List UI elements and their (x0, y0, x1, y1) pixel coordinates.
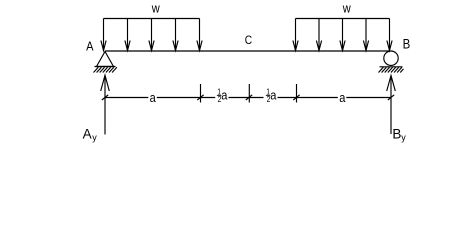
dimension slash tick at third quarter (293, 95, 299, 100)
roller support B ground line (380, 66, 403, 68)
svg-text:B: B (403, 37, 411, 52)
left load arrow 3 (149, 19, 154, 51)
roller support B hatching (379, 67, 404, 72)
right load arrow 1 (293, 19, 298, 51)
svg-text:a: a (339, 90, 345, 105)
reaction arrow By (387, 76, 396, 135)
right load arrow 2 (316, 19, 321, 51)
svg-text:a: a (221, 88, 227, 103)
svg-text:A: A (86, 39, 94, 54)
reaction arrow Ay (101, 75, 110, 134)
dimension slash tick at A (102, 95, 108, 100)
svg-text:B: B (392, 126, 401, 141)
svg-text:a: a (150, 90, 156, 105)
roller support B circle (384, 51, 398, 65)
left load arrow 2 (125, 19, 130, 51)
left distributed load top line (104, 18, 200, 20)
left load arrow 5 (197, 19, 202, 51)
dimension line segments (105, 97, 391, 99)
right distributed load top line (296, 18, 390, 20)
svg-text:w: w (151, 1, 160, 16)
beam AB (105, 50, 390, 52)
svg-text:y: y (92, 133, 97, 143)
dimension slash tick at first quarter (197, 95, 203, 100)
svg-text:w: w (342, 1, 351, 16)
label half-a second: fraction bar (266, 95, 271, 97)
dimension slash tick at B (388, 95, 394, 100)
svg-text:y: y (401, 133, 406, 143)
svg-text:C: C (245, 34, 252, 47)
right load arrow 5 (387, 19, 392, 51)
witness line at second half-a tick (296, 84, 298, 103)
witness line at centre C tick (248, 84, 250, 103)
left load arrow 1 (101, 19, 106, 51)
svg-text:A: A (83, 126, 92, 141)
pin support A hatching (94, 67, 117, 72)
dimension slash tick at centre (246, 95, 252, 100)
pin support A triangle (97, 52, 114, 67)
label half-a first: fraction bar (217, 95, 222, 97)
right load arrow 3 (340, 19, 345, 51)
left load arrow 4 (173, 19, 178, 51)
svg-text:a: a (270, 88, 276, 103)
right load arrow 4 (363, 19, 368, 51)
witness line at first half-a tick (200, 84, 202, 103)
pin support A base line (95, 66, 116, 68)
